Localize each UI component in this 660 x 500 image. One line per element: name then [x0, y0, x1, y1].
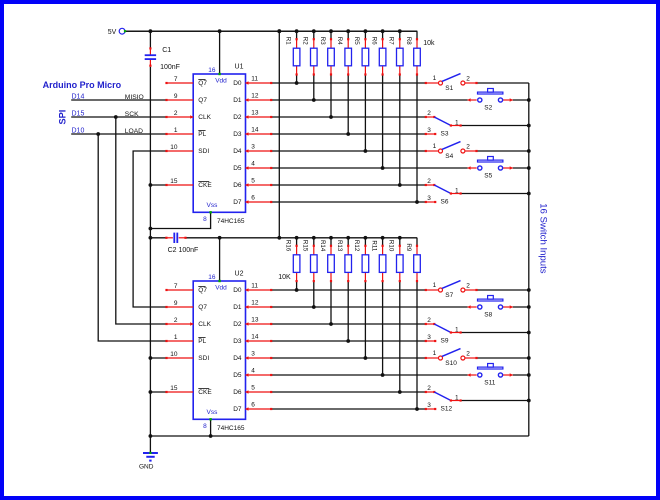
- svg-text:3: 3: [427, 195, 431, 202]
- svg-text:15: 15: [170, 178, 178, 185]
- svg-text:D0: D0: [233, 80, 242, 87]
- svg-text:8: 8: [203, 423, 207, 430]
- svg-text:PL: PL: [198, 338, 206, 345]
- svg-text:D7: D7: [233, 406, 242, 413]
- svg-text:9: 9: [174, 300, 178, 307]
- svg-text:15: 15: [170, 385, 178, 392]
- svg-text:2: 2: [427, 385, 431, 392]
- svg-text:R9: R9: [405, 243, 412, 251]
- svg-text:2: 2: [427, 110, 431, 117]
- svg-text:R2: R2: [302, 37, 309, 45]
- svg-text:2: 2: [427, 317, 431, 324]
- svg-text:D7: D7: [233, 199, 242, 206]
- svg-text:2: 2: [466, 143, 470, 150]
- svg-text:R13: R13: [336, 240, 343, 252]
- svg-text:D2: D2: [233, 114, 242, 121]
- svg-text:U2: U2: [235, 271, 244, 278]
- svg-text:10K: 10K: [278, 274, 291, 281]
- svg-text:R10: R10: [388, 240, 395, 252]
- svg-text:S9: S9: [441, 337, 449, 344]
- svg-text:S3: S3: [441, 130, 449, 137]
- svg-text:Arduino Pro Micro: Arduino Pro Micro: [43, 80, 122, 90]
- svg-text:10k: 10k: [423, 40, 435, 47]
- svg-text:14: 14: [251, 334, 259, 341]
- svg-text:D6: D6: [233, 389, 242, 396]
- svg-text:1: 1: [433, 143, 437, 150]
- svg-text:11: 11: [251, 76, 258, 83]
- svg-text:3: 3: [427, 334, 431, 341]
- svg-text:2: 2: [174, 317, 178, 324]
- svg-text:R7: R7: [388, 37, 395, 45]
- svg-text:Vss: Vss: [207, 409, 219, 416]
- svg-text:S10: S10: [445, 360, 457, 367]
- svg-text:1: 1: [455, 120, 459, 127]
- svg-text:D14: D14: [72, 94, 85, 101]
- svg-text:D4: D4: [233, 148, 242, 155]
- svg-text:D3: D3: [233, 338, 242, 345]
- svg-text:S6: S6: [441, 198, 449, 205]
- svg-text:PL: PL: [198, 131, 206, 138]
- svg-text:SDI: SDI: [198, 355, 209, 362]
- svg-text:D10: D10: [72, 128, 85, 135]
- svg-text:3: 3: [251, 144, 255, 151]
- svg-text:2: 2: [427, 178, 431, 185]
- svg-text:13: 13: [251, 317, 259, 324]
- svg-text:7: 7: [174, 283, 178, 290]
- svg-text:12: 12: [251, 300, 259, 307]
- svg-text:CLK: CLK: [198, 321, 211, 328]
- svg-text:C2 100nF: C2 100nF: [168, 247, 199, 254]
- svg-text:1: 1: [455, 188, 459, 195]
- svg-text:6: 6: [251, 402, 255, 409]
- svg-text:R3: R3: [319, 37, 326, 45]
- svg-text:16 Switch Inputs: 16 Switch Inputs: [537, 203, 548, 274]
- svg-text:1: 1: [174, 127, 178, 134]
- svg-text:6: 6: [251, 195, 255, 202]
- svg-text:2: 2: [466, 350, 470, 357]
- svg-text:10: 10: [170, 144, 178, 151]
- svg-text:Q7: Q7: [198, 97, 207, 104]
- svg-text:CKE: CKE: [198, 182, 212, 189]
- svg-text:D0: D0: [233, 287, 242, 294]
- svg-text:CLK: CLK: [198, 114, 211, 121]
- svg-text:D4: D4: [233, 355, 242, 362]
- svg-text:8: 8: [203, 216, 207, 223]
- svg-text:S7: S7: [445, 292, 453, 299]
- svg-text:Q7: Q7: [198, 304, 207, 311]
- svg-text:1: 1: [455, 395, 459, 402]
- svg-text:LOAD: LOAD: [125, 128, 143, 135]
- svg-text:R1: R1: [284, 37, 291, 45]
- svg-text:D6: D6: [233, 182, 242, 189]
- svg-text:2: 2: [466, 75, 470, 82]
- svg-text:R11: R11: [370, 240, 377, 251]
- svg-text:7: 7: [174, 76, 178, 83]
- svg-text:4: 4: [251, 368, 255, 375]
- svg-text:5: 5: [251, 178, 255, 185]
- svg-text:Vdd: Vdd: [215, 285, 227, 292]
- svg-text:3: 3: [427, 402, 431, 409]
- svg-text:D15: D15: [72, 111, 85, 118]
- svg-text:R4: R4: [336, 37, 343, 45]
- svg-text:12: 12: [251, 93, 259, 100]
- svg-text:D2: D2: [233, 321, 242, 328]
- svg-text:GND: GND: [139, 464, 154, 471]
- svg-text:S11: S11: [484, 380, 495, 387]
- svg-text:R16: R16: [284, 240, 291, 252]
- svg-text:4: 4: [251, 161, 255, 168]
- svg-text:1: 1: [433, 282, 437, 289]
- svg-text:SDI: SDI: [198, 148, 209, 155]
- svg-text:Vdd: Vdd: [215, 78, 227, 85]
- svg-text:5V: 5V: [108, 29, 117, 36]
- svg-text:11: 11: [251, 283, 258, 290]
- svg-text:S12: S12: [441, 405, 453, 412]
- svg-text:S1: S1: [445, 85, 453, 92]
- svg-text:MISIO: MISIO: [125, 94, 144, 101]
- svg-text:R6: R6: [370, 37, 377, 45]
- svg-text:D1: D1: [233, 304, 242, 311]
- svg-text:1: 1: [433, 350, 437, 357]
- svg-text:2: 2: [466, 282, 470, 289]
- svg-text:2: 2: [174, 110, 178, 117]
- svg-text:3: 3: [427, 127, 431, 134]
- svg-text:Vss: Vss: [207, 202, 219, 209]
- svg-text:D3: D3: [233, 131, 242, 138]
- svg-text:3: 3: [251, 351, 255, 358]
- svg-text:16: 16: [208, 274, 216, 281]
- svg-text:D1: D1: [233, 97, 242, 104]
- svg-text:100nF: 100nF: [160, 64, 180, 71]
- svg-text:74HC165: 74HC165: [217, 425, 245, 432]
- svg-text:16: 16: [208, 67, 216, 74]
- svg-text:CKE: CKE: [198, 389, 212, 396]
- svg-text:Q7: Q7: [198, 287, 207, 294]
- svg-text:C1: C1: [162, 47, 171, 54]
- svg-text:D5: D5: [233, 165, 242, 172]
- svg-text:1: 1: [455, 327, 459, 334]
- svg-text:1: 1: [174, 334, 178, 341]
- svg-text:R12: R12: [353, 240, 360, 252]
- svg-text:R14: R14: [319, 240, 326, 252]
- svg-text:SPI: SPI: [58, 110, 68, 125]
- svg-text:S4: S4: [445, 153, 453, 160]
- svg-text:Q7: Q7: [198, 80, 207, 87]
- svg-text:SCK: SCK: [125, 111, 139, 118]
- svg-text:S5: S5: [484, 173, 492, 180]
- svg-text:14: 14: [251, 127, 259, 134]
- svg-text:5: 5: [251, 385, 255, 392]
- svg-text:R5: R5: [353, 37, 360, 45]
- svg-text:9: 9: [174, 93, 178, 100]
- svg-text:1: 1: [433, 75, 437, 82]
- svg-text:S2: S2: [484, 105, 492, 112]
- svg-text:R8: R8: [405, 37, 412, 45]
- svg-text:10: 10: [170, 351, 178, 358]
- svg-text:D5: D5: [233, 372, 242, 379]
- svg-text:74HC165: 74HC165: [217, 218, 245, 225]
- svg-text:R15: R15: [302, 240, 309, 252]
- svg-text:S8: S8: [484, 312, 492, 319]
- svg-text:U1: U1: [235, 64, 244, 71]
- svg-text:13: 13: [251, 110, 259, 117]
